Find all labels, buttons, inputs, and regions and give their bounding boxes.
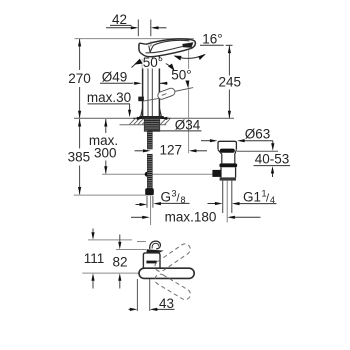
dimension max.300 bottom arrow <box>105 161 107 174</box>
dimension max.300 top arrow <box>105 119 107 133</box>
faucet lever tip <box>190 40 195 49</box>
16 deg arc right arrowhead <box>198 54 206 60</box>
svg-text:50°: 50° <box>143 55 163 70</box>
dimension 385 line upper part <box>79 119 81 149</box>
270 top arrowhead <box>78 39 81 47</box>
82 bottom up arrow <box>119 279 121 289</box>
G3/8 leader left arrowhead <box>153 202 161 205</box>
svg-text:G: G <box>161 190 172 205</box>
drain bottom band <box>220 177 236 180</box>
supply nut <box>145 188 154 195</box>
40-53 top reference line <box>237 150 278 152</box>
svg-text:300: 300 <box>94 145 117 160</box>
svg-text:max.180: max.180 <box>165 210 217 225</box>
pop-up rod joint dot <box>145 172 150 177</box>
diameter 63 left arrow <box>201 140 215 142</box>
385 bottom reference line <box>74 194 146 196</box>
diameter 34 right arrow <box>163 117 171 119</box>
threaded shank wide part <box>144 119 159 132</box>
ghost lever down capsule <box>153 272 192 301</box>
drain rod connector block <box>212 170 221 177</box>
diameter 63 right arrow and underline <box>240 140 273 142</box>
knob leader line <box>144 98 159 101</box>
ghost lever up capsule <box>153 242 192 274</box>
drain centerline extension <box>226 181 228 223</box>
threaded rod <box>147 131 152 191</box>
111 bottom up arrow <box>92 279 94 289</box>
svg-text:127: 127 <box>160 143 183 158</box>
50 deg first arc left segment <box>132 61 140 67</box>
dimension 43 right arrow <box>155 308 175 310</box>
385 top arrowhead <box>78 119 81 127</box>
dimension 270 line upper part <box>79 39 81 70</box>
pop-up rod knob on body <box>138 97 144 102</box>
svg-text:43: 43 <box>159 296 174 311</box>
42 right extension lower segment <box>150 41 152 46</box>
dimension 42 right arrow <box>153 27 167 29</box>
faucet inner cartridge lines <box>147 58 149 117</box>
lever back edge <box>138 43 141 51</box>
82 top reference line B <box>116 249 146 251</box>
max.30 vertical leader with down arrow <box>129 104 131 112</box>
40-53 bottom up arrow <box>272 171 274 177</box>
svg-text:111: 111 <box>84 251 105 266</box>
16 deg arc left arrowhead <box>174 56 182 61</box>
handle head curl inner line <box>152 243 158 248</box>
diameter 34 underline <box>148 130 202 132</box>
svg-text:max.30: max.30 <box>87 90 131 105</box>
supply centerline extension <box>150 196 152 225</box>
hose end / pop-up rod horizontal line <box>102 173 213 175</box>
16 deg underline <box>200 44 224 46</box>
deck section hatching <box>130 119 171 125</box>
dimension 127 left arrow <box>135 150 149 152</box>
cartridge dark base band <box>146 261 156 264</box>
svg-text:16°: 16° <box>202 31 222 46</box>
svg-text:G1: G1 <box>243 190 261 205</box>
drain flange taper <box>218 150 236 164</box>
dimension 385 line lower part <box>79 166 81 195</box>
drain o-ring <box>219 163 237 167</box>
diameter 63 vertical drop with down arrow <box>272 141 274 146</box>
dimension 42 underline <box>110 24 132 26</box>
aerator ghost capsule <box>157 87 176 100</box>
G3/8 partner right-pointing arrow <box>136 204 142 206</box>
dimension 127 right arrow <box>192 150 208 152</box>
dimension 43 left arrow <box>129 308 132 310</box>
faucet body left wall <box>142 59 144 116</box>
faucet spout/lever outline top <box>146 39 191 44</box>
dimension diameter 34 left arrow <box>133 117 142 119</box>
270 bottom arrowhead <box>78 111 81 119</box>
G1 1/4 underline <box>243 203 277 205</box>
handle top reference line A <box>88 239 132 241</box>
svg-text:385: 385 <box>68 150 91 165</box>
svg-text:270: 270 <box>68 71 91 86</box>
385 bottom arrowhead <box>78 187 81 195</box>
max.180 right arrow <box>233 216 261 218</box>
supply pipe walls <box>146 196 148 208</box>
lever notch crease right and inner curve 1 <box>150 40 189 52</box>
svg-text:Ø34: Ø34 <box>175 118 201 133</box>
svg-text:Ø63: Ø63 <box>245 127 271 142</box>
faucet base flange <box>140 117 164 119</box>
drain flange bottom dark bar <box>220 149 235 153</box>
svg-text:50°: 50° <box>171 67 191 82</box>
svg-text:42: 42 <box>112 12 127 27</box>
handle head left connector line <box>137 241 146 243</box>
deck (countertop) top line <box>74 117 234 119</box>
top reference line at faucet top <box>75 38 195 40</box>
faucet spout/lever outline bottom <box>140 49 191 57</box>
spout top inner curve 2 <box>146 44 191 52</box>
svg-text:Ø49: Ø49 <box>102 70 128 85</box>
svg-text:245: 245 <box>219 74 242 89</box>
drain flange top <box>218 141 236 149</box>
drain tailpipe walls <box>222 181 224 213</box>
245 top arrowhead <box>228 46 231 54</box>
43 extension lines <box>136 279 138 311</box>
lever notch crease left <box>149 46 150 53</box>
lever top-left corner <box>139 43 146 44</box>
handle pivot reference line <box>82 272 138 274</box>
deck bottom line <box>120 124 167 126</box>
solid lever capsule <box>139 268 194 278</box>
dimension 245 line lower part <box>228 90 230 119</box>
40-53 underline <box>254 165 291 167</box>
dimension max.180 left arrow <box>131 216 144 218</box>
111 top down arrow <box>92 229 94 235</box>
handle dark blade <box>147 249 164 253</box>
245 bottom arrowhead <box>228 111 231 119</box>
dimension 42 left arrow <box>106 27 136 29</box>
245 top tick <box>226 44 233 46</box>
G1 1/4 partner right-pointing arrow <box>208 203 217 205</box>
16 deg tilt arc <box>175 55 206 59</box>
svg-text:82: 82 <box>112 254 127 269</box>
aerator dark wedge at tip <box>182 42 193 47</box>
white gap for 50deg text 2 <box>173 69 191 81</box>
dimension 245 line upper part <box>228 46 230 76</box>
diameter 49 left-pointing arrowhead at right wall <box>160 82 168 84</box>
50 deg second down arrowhead onto swivel line <box>185 80 189 88</box>
faucet body right wall <box>158 56 160 116</box>
dimension 42 extension lines <box>137 20 139 37</box>
50 deg first right arrowhead <box>168 64 175 71</box>
svg-text:40-53: 40-53 <box>255 151 290 166</box>
swivel indicator line right of capsule <box>174 88 193 92</box>
diameter 49 underline leader <box>100 82 134 84</box>
G3/8 underline <box>160 202 190 204</box>
white gap for 50deg text 1 <box>142 58 165 69</box>
faucet base cone <box>141 108 162 116</box>
82 top down arrow <box>119 235 121 244</box>
cartridge body <box>143 253 160 269</box>
diameter 49 right-pointing arrowhead <box>134 82 142 85</box>
dimension 270 line lower part <box>79 87 81 118</box>
handle head curl <box>150 241 161 249</box>
rod arrow gap <box>147 149 153 154</box>
spout outlet extension line <box>188 50 190 154</box>
drain body <box>221 167 236 177</box>
max.30 underline <box>88 103 131 105</box>
G1 1/4 leader left arrowhead <box>235 203 243 205</box>
50 deg first left arrowhead <box>134 59 143 65</box>
50 deg first arc right segment <box>166 64 174 70</box>
